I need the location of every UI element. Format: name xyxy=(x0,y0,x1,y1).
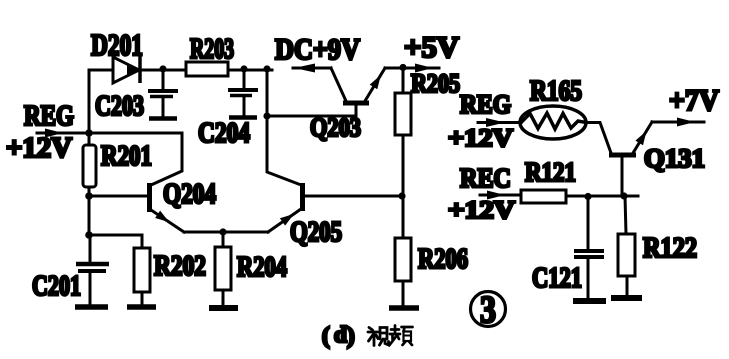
svg-text:R202: R202 xyxy=(154,251,206,282)
wire R121 to Q131 base xyxy=(566,195,638,198)
resistor R202 xyxy=(134,248,150,305)
transistor Q131 xyxy=(609,122,652,196)
wire R203 to right junction xyxy=(228,69,272,72)
resistor R201 xyxy=(83,133,96,196)
svg-text:D201: D201 xyxy=(91,27,143,62)
resistor R121 xyxy=(521,190,566,203)
resistor R203 xyxy=(186,62,228,76)
transistor Q203 xyxy=(293,64,385,104)
circled 3 figure number xyxy=(471,292,506,327)
svg-text:d: d xyxy=(334,322,347,347)
node R204 tap xyxy=(219,228,226,235)
caption hanzi 视 xyxy=(368,328,389,346)
svg-text:+12V: +12V xyxy=(6,133,72,164)
resistor R206 xyxy=(395,238,411,306)
svg-text:R122: R122 xyxy=(643,233,697,264)
svg-text:Q131: Q131 xyxy=(644,144,705,173)
ground under R206 xyxy=(389,305,419,311)
node B junction xyxy=(85,192,93,200)
resistor R204 xyxy=(215,232,231,306)
svg-text:+7V: +7V xyxy=(669,84,719,117)
svg-text:R165: R165 xyxy=(530,76,582,107)
resistor R205 xyxy=(395,68,411,135)
svg-text:R204: R204 xyxy=(237,252,287,283)
diode D201 xyxy=(113,55,140,83)
svg-text:C121: C121 xyxy=(532,263,582,294)
node right rail junction xyxy=(263,65,270,72)
REG +12V input arrow left xyxy=(37,129,87,138)
wire node A to Q204 collector xyxy=(89,133,182,185)
svg-text:C204: C204 xyxy=(198,118,250,149)
svg-text:REC: REC xyxy=(460,163,511,193)
REG +12V arrow right circuit xyxy=(478,118,521,127)
node C121 tap xyxy=(584,193,591,200)
svg-text:C203: C203 xyxy=(95,91,144,122)
capacitor C121 xyxy=(574,196,604,299)
svg-text:REG: REG xyxy=(24,101,74,132)
svg-text:+12V: +12V xyxy=(448,125,513,152)
node C junction xyxy=(85,231,93,239)
ground under R202 xyxy=(127,304,156,310)
node C204 tap xyxy=(240,65,247,72)
wire +5V rail xyxy=(385,67,439,70)
node Q203 base wire tap xyxy=(263,112,270,119)
svg-text:R201: R201 xyxy=(101,141,152,172)
node Q131 base junction xyxy=(620,192,627,199)
svg-text:Q205: Q205 xyxy=(290,217,342,248)
wire diode cathode to R203 xyxy=(140,69,186,72)
wire right rail down to Q205 collector xyxy=(267,70,301,185)
svg-text:R121: R121 xyxy=(525,157,576,187)
svg-text:Q203: Q203 xyxy=(310,113,361,142)
svg-text:R206: R206 xyxy=(418,244,468,275)
ground under C121 xyxy=(573,298,606,304)
svg-text:): ) xyxy=(347,323,355,348)
transistor Q205 xyxy=(268,183,303,232)
svg-text:+5V: +5V xyxy=(404,31,459,64)
svg-text:R203: R203 xyxy=(190,34,234,65)
svg-text:+12V: +12V xyxy=(448,197,515,224)
ground under R122 xyxy=(611,295,642,301)
wire Q205 base to junction xyxy=(305,195,402,198)
wire node B down to node C xyxy=(88,196,91,235)
svg-text:R205: R205 xyxy=(411,69,460,98)
node junction C203 tap xyxy=(159,65,166,72)
svg-text:C201: C201 xyxy=(32,271,81,302)
ground under C201 xyxy=(75,304,108,310)
ground under R204 xyxy=(209,305,238,311)
wire to Q203 base xyxy=(267,105,356,116)
wire top rail from left corner to diode xyxy=(89,70,113,133)
wire shared emitters xyxy=(184,231,268,234)
wire R205 to R206 xyxy=(402,135,405,238)
wire R165 to Q131 xyxy=(586,123,611,154)
svg-text:(: ( xyxy=(322,323,330,348)
svg-text:Q204: Q204 xyxy=(163,179,216,210)
wire +7V rail xyxy=(652,121,704,124)
capacitor C201 xyxy=(76,235,109,305)
node R205 top tap xyxy=(399,64,406,71)
caption hanzi 频 xyxy=(390,326,413,346)
node A main junction xyxy=(85,129,93,137)
capacitor C203 xyxy=(148,70,178,119)
wire node B to Q204 base xyxy=(89,195,147,198)
REC +12V arrow xyxy=(480,191,521,200)
resistor R165 ellipse with zigzag xyxy=(520,106,586,139)
wire node C to R202 xyxy=(89,235,142,248)
svg-text:REG: REG xyxy=(460,90,511,119)
node Q205 base junction xyxy=(398,192,405,199)
svg-text:DC+9V: DC+9V xyxy=(275,33,360,66)
capacitor C204 xyxy=(228,70,258,118)
transistor Q204 xyxy=(150,183,185,232)
svg-text:3: 3 xyxy=(480,289,496,331)
resistor R122 xyxy=(618,196,635,296)
